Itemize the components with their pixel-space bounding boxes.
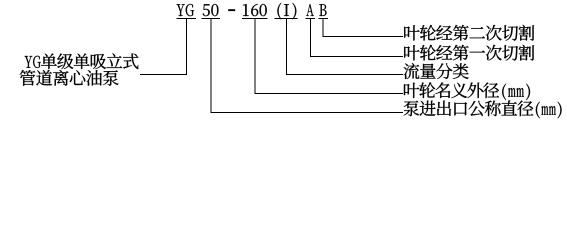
underline under "50"	[202, 18, 221, 20]
leader horizontal to label 1	[323, 36, 403, 38]
model code dash	[228, 9, 235, 11]
underline under "A"	[306, 18, 316, 20]
model code "(I)"	[277, 3, 296, 20]
leader horizontal to left description	[140, 74, 187, 76]
underline under "(I)"	[275, 18, 298, 20]
underline under "B"	[319, 18, 329, 20]
leader vertical from "B"	[322, 19, 324, 37]
model code "160"	[243, 4, 267, 16]
left text line 1 "YG单级单吸立式"	[25, 53, 139, 69]
leader horizontal to label 4	[254, 93, 403, 95]
leader horizontal to label 2	[310, 56, 403, 58]
leader vertical from "YG"	[185, 19, 187, 75]
label 1 "叶轮经第二次切割"	[404, 25, 534, 41]
underline under "160"	[242, 18, 268, 20]
underline under "YG"	[177, 18, 197, 20]
label 2 "叶轮经第一次切割"	[404, 45, 534, 61]
leader vertical from "160"	[254, 19, 256, 94]
leader vertical from "(I)"	[286, 19, 288, 75]
leader vertical from "A"	[310, 19, 312, 57]
label 5 "泵进出口公称直径(mm)"	[404, 100, 562, 118]
label 3 "流量分类"	[404, 63, 469, 79]
model code "50"	[203, 4, 219, 16]
label 4 "叶轮名义外径(mm)"	[404, 82, 530, 100]
leader vertical from "50"	[210, 19, 212, 113]
leader horizontal to label 5	[210, 112, 403, 114]
model code "B"	[319, 4, 326, 16]
model code "A"	[306, 4, 314, 16]
leader horizontal to label 3	[286, 74, 403, 76]
model code "YG"	[177, 4, 194, 16]
left text line 2 "管道离心油泵"	[20, 70, 119, 86]
